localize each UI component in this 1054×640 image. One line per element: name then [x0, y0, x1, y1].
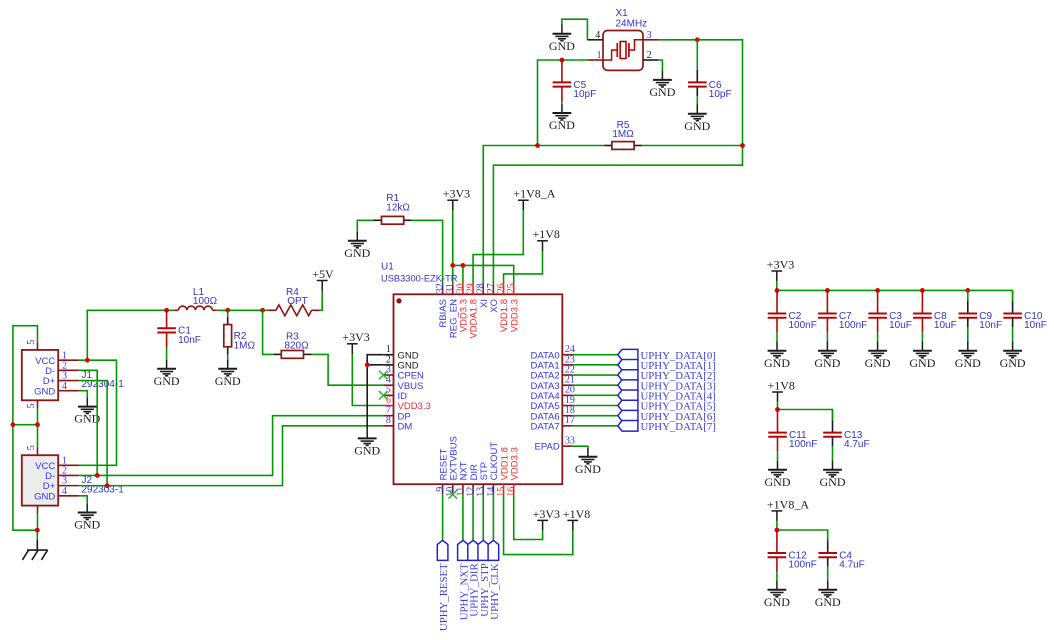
svg-text:100nF: 100nF — [839, 320, 867, 331]
svg-text:+1V8: +1V8 — [533, 227, 560, 241]
junction — [260, 308, 265, 313]
junction — [450, 263, 455, 268]
ground — [154, 360, 180, 388]
svg-text:+1V8: +1V8 — [563, 507, 590, 521]
wire X1 pin2 to GND — [659, 60, 663, 71]
wire EPAD to ground — [572, 446, 587, 447]
net D-: J1 pin2, J2 pin2 to U1 DP — [79, 370, 384, 475]
node UPHY_DATA[4] hierarchical label — [618, 390, 716, 402]
svg-text:GND: GND — [865, 356, 891, 370]
U1 pin 9 RESET — [435, 449, 449, 495]
node UPHY_DATA[5] hierarchical label — [618, 400, 716, 412]
svg-text:USB3300-EZK-TR: USB3300-EZK-TR — [381, 274, 458, 284]
inductor L1 — [174, 306, 217, 310]
power +3V3 — [767, 257, 794, 281]
svg-text:5: 5 — [26, 445, 37, 450]
ground — [815, 581, 841, 609]
resistor R3 — [273, 351, 311, 359]
wire DATA6 to label — [572, 415, 617, 417]
label R4 value OPT — [287, 296, 308, 307]
ground — [820, 461, 846, 489]
label J2 refdes — [82, 475, 93, 486]
net +1V8_A decoupling rail — [777, 521, 828, 539]
svg-text:100nF: 100nF — [789, 439, 817, 450]
pin 5 shield top of J2 — [26, 445, 37, 455]
svg-text:GND: GND — [575, 462, 601, 476]
svg-text:GND: GND — [549, 39, 575, 53]
svg-text:1MΩ: 1MΩ — [234, 340, 256, 351]
pin 3 number — [647, 30, 652, 41]
svg-text:GND: GND — [684, 119, 710, 133]
label L1 value 100&#937; — [193, 296, 218, 307]
net +1V8 decoupling rail — [778, 402, 833, 419]
ground — [814, 342, 840, 370]
svg-text:GND: GND — [820, 475, 846, 489]
svg-text:4: 4 — [595, 30, 600, 41]
U1 pin 2 GND — [383, 354, 418, 371]
junction — [560, 58, 565, 63]
svg-text:24MHz: 24MHz — [616, 18, 648, 29]
svg-text:1: 1 — [597, 50, 602, 61]
U1 pin 18 DATA6 — [530, 405, 574, 422]
node UPHY_DATA[3] hierarchical label — [618, 380, 716, 392]
svg-text:UPHY_CLK: UPHY_CLK — [489, 563, 501, 620]
U1 pin 22 DATA2 — [530, 364, 574, 381]
U1 pin 11 NXT — [455, 461, 469, 496]
svg-text:OPT: OPT — [287, 296, 308, 307]
svg-text:+1V8_A: +1V8_A — [513, 187, 555, 201]
U1 pin 27 XO — [486, 283, 500, 313]
pin 5 shield top of J1 — [26, 340, 37, 350]
node UPHY_STP label — [478, 540, 491, 616]
wire J1 GND pin4 to ground — [79, 391, 88, 398]
label R1 value 12k&#937; — [386, 203, 410, 214]
junction — [164, 308, 169, 313]
U1 pin 12 DIR — [465, 464, 479, 497]
svg-text:GND: GND — [354, 444, 380, 458]
ground — [354, 429, 380, 457]
U1 pin 14 CLKOUT — [486, 442, 500, 497]
ground — [1000, 342, 1026, 370]
junction — [740, 143, 745, 148]
svg-text:GND: GND — [154, 374, 180, 388]
svg-text:1MΩ: 1MΩ — [612, 129, 634, 140]
node UPHY_DATA[7] hierarchical label — [618, 421, 716, 433]
label J1 value 292304-1 — [82, 379, 125, 390]
U1 pin 25 VDD3.3 — [506, 283, 520, 332]
node UPHY_DIR label — [468, 540, 481, 616]
capacitor C5 — [553, 60, 597, 104]
svg-text:16: 16 — [506, 487, 517, 497]
wire U1 to UPHY_DIR — [472, 494, 474, 540]
svg-text:+3V3: +3V3 — [533, 507, 560, 521]
node XTAL1: wire X1 pin1 / C5 / R5 row / XI — [483, 60, 604, 284]
pin 4 number — [595, 30, 600, 41]
net +1V8_A wire to pin 29 — [473, 210, 523, 284]
ground — [215, 360, 241, 388]
capacitor C10 — [1003, 290, 1047, 341]
node UPHY_DATA[1] hierarchical label — [618, 360, 716, 372]
ground — [764, 342, 790, 370]
label R5 value 1M&#937; — [612, 129, 634, 140]
ground — [575, 448, 601, 476]
capacitor C2 — [768, 290, 817, 341]
connector J1 292304-1 (USB) — [22, 350, 79, 400]
junction — [775, 288, 780, 293]
svg-text:10nF: 10nF — [178, 335, 201, 346]
svg-text:GND: GND — [765, 475, 791, 489]
wire U1 to UPHY_CLK — [492, 494, 494, 540]
capacitor C1 — [157, 310, 201, 359]
ground — [74, 397, 100, 425]
resistor R4 (zigzag) — [268, 305, 320, 316]
junction — [920, 288, 925, 293]
power +3V3 — [443, 187, 470, 211]
wires U1 pins 1,2 GND to ground — [367, 355, 383, 430]
U1 pin 19 DATA5 — [530, 395, 574, 412]
svg-text:4: 4 — [62, 381, 67, 392]
junction — [965, 288, 970, 293]
ground — [549, 104, 575, 132]
junction — [825, 288, 830, 293]
U1 pin 17 DATA7 — [530, 415, 574, 432]
svg-text:10nF: 10nF — [979, 320, 1002, 331]
ground — [649, 71, 675, 99]
capacitor C3 — [868, 290, 912, 341]
power +1V8_A — [513, 187, 555, 211]
svg-text:GND: GND — [34, 386, 55, 397]
ground — [74, 503, 100, 531]
svg-text:GND: GND — [815, 595, 841, 609]
power +1V8_A — [767, 497, 809, 521]
ground — [865, 342, 891, 370]
ground — [549, 25, 575, 53]
svg-text:3: 3 — [647, 30, 652, 41]
U1 pin 28 XI — [476, 283, 490, 308]
node UPHY_NXT label — [458, 540, 471, 620]
svg-text:17: 17 — [565, 415, 575, 426]
label X1 value 24MHz — [616, 18, 648, 29]
capacitor C9 — [959, 290, 1003, 341]
pin 5 shield bottom of J2 — [37, 506, 39, 514]
net D+: J1 pin3, J2 pin3 to U1 DM — [79, 381, 384, 486]
wire DATA1 to label — [572, 364, 617, 366]
U1 pin 1 GND — [383, 344, 418, 361]
junction — [105, 483, 110, 488]
wire shield J2 bottom to chassis — [36, 513, 38, 540]
wire DATA4 to label — [572, 394, 617, 396]
label J2 value 292303-1 — [82, 484, 125, 495]
label X1 refdes — [616, 8, 629, 19]
resistor R2 — [224, 310, 232, 359]
wire U1 to UPHY_RESET — [442, 494, 444, 540]
U1 pin 5 ID — [383, 385, 407, 402]
svg-text:GND: GND — [1000, 356, 1026, 370]
no-connect X on pin 10 EXTVBUS — [448, 490, 457, 499]
net shield loop J1 pin5 — [13, 326, 38, 531]
ground — [909, 342, 935, 370]
junction — [95, 473, 100, 478]
wire R3 to U1 VBUS pin 4 — [312, 354, 384, 385]
svg-text:8: 8 — [386, 415, 391, 426]
crystal X1 — [587, 31, 658, 71]
power +3V3 — [342, 330, 369, 354]
svg-text:GND: GND — [909, 356, 935, 370]
junction — [695, 37, 700, 42]
svg-text:GND: GND — [764, 356, 790, 370]
svg-text:4: 4 — [62, 486, 67, 497]
net VCC: J1 pin1 to rail and J2 pin1 — [79, 360, 117, 465]
op-amp U1 USB3300-EZK-TR body — [394, 294, 563, 484]
capacitor C11 — [768, 410, 817, 461]
wire +1V8 to U1 pin 15 — [504, 494, 573, 554]
svg-text:33: 33 — [565, 436, 575, 447]
label L1 refdes — [193, 287, 205, 298]
label R2 refdes — [234, 331, 247, 342]
svg-text:4.7uF: 4.7uF — [839, 560, 865, 571]
svg-text:+1V8: +1V8 — [768, 378, 795, 392]
label J1 refdes — [82, 370, 93, 381]
svg-text:GND: GND — [344, 246, 370, 260]
node UPHY_CLK label — [488, 540, 501, 619]
svg-text:GND: GND — [549, 118, 575, 132]
node UPHY_DATA[2] hierarchical label — [618, 370, 716, 382]
svg-text:GND: GND — [764, 595, 790, 609]
label R1 refdes — [386, 193, 399, 204]
svg-text:25: 25 — [506, 283, 517, 293]
wire VBUS branch to R3 — [263, 310, 274, 354]
junction — [875, 288, 880, 293]
ground — [955, 342, 981, 370]
svg-text:12kΩ: 12kΩ — [386, 203, 410, 214]
junction — [365, 362, 370, 367]
resistor R1 — [374, 216, 412, 224]
svg-text:+3V3: +3V3 — [767, 257, 794, 271]
power +1V8 — [533, 227, 560, 251]
wire J2 GND pin4 to ground — [79, 496, 88, 504]
svg-text:GND: GND — [34, 491, 55, 502]
junction — [225, 308, 230, 313]
U1 pin 15 VDD1.8 — [496, 447, 510, 497]
svg-text:10pF: 10pF — [573, 89, 596, 100]
svg-text:+1V8_A: +1V8_A — [767, 497, 809, 511]
capacitor C8 — [913, 290, 957, 341]
U1 pin 33 EPAD — [535, 436, 575, 453]
svg-text:VDD3.3: VDD3.3 — [510, 447, 521, 480]
wire DATA3 to label — [572, 384, 617, 386]
wire R1 right to U1 RBIAS pin 32 — [412, 220, 443, 284]
no-connect X on pin 3 CPEN — [379, 371, 388, 380]
U1 pin 7 DP — [383, 405, 410, 422]
svg-text:10nF: 10nF — [1024, 320, 1047, 331]
U1 pin 24 DATA0 — [530, 344, 574, 361]
U1 pin 10 EXTVBUS — [445, 436, 459, 497]
wire U1 to UPHY_STP — [482, 494, 484, 540]
U1 pin 16 VDD3.3 — [506, 447, 520, 497]
ground — [344, 232, 370, 260]
junction — [461, 263, 466, 268]
svg-text:GND: GND — [955, 356, 981, 370]
svg-text:2: 2 — [647, 50, 652, 61]
power +1V8 — [563, 507, 590, 531]
svg-text:DATA7: DATA7 — [530, 421, 559, 432]
wire shield J1 bottom to J2 top — [13, 408, 38, 447]
node UPHY_DATA[6] hierarchical label — [618, 410, 716, 422]
svg-text:820Ω: 820Ω — [284, 341, 309, 352]
power +5V — [312, 267, 334, 291]
power +3V3 — [533, 507, 560, 531]
connector J2 292303-1 (USB) — [22, 455, 79, 505]
capacitor C4 — [818, 530, 864, 581]
wire R1 left to GND — [357, 220, 373, 231]
svg-text:GND: GND — [215, 374, 241, 388]
svg-text:100Ω: 100Ω — [193, 296, 218, 307]
wire DATA7 to label — [572, 425, 617, 427]
node VBUS rail from J1 VCC — [87, 310, 268, 360]
node XTAL2: wire X1 pin3 / C6 / R5 right / XO — [493, 40, 742, 284]
ground — [765, 461, 791, 489]
svg-text:+5V: +5V — [312, 267, 334, 281]
svg-text:UPHY_DATA[7]: UPHY_DATA[7] — [641, 421, 716, 433]
label R2 value 1M&#937; — [234, 340, 256, 351]
junction — [775, 407, 780, 412]
node UPHY_DATA[0] hierarchical label — [618, 349, 716, 361]
svg-text:10pF: 10pF — [709, 89, 732, 100]
pin 1 number — [597, 50, 602, 61]
U1 pin 3 CPEN — [383, 364, 424, 381]
junction — [35, 528, 40, 533]
U1 pin 8 DM — [383, 415, 412, 432]
svg-text:10uF: 10uF — [934, 320, 957, 331]
wire DATA5 to label — [572, 405, 617, 407]
wire +3V3 to U1 pin 16 — [514, 494, 543, 539]
svg-text:5: 5 — [26, 340, 37, 345]
junction — [35, 422, 40, 427]
label R4 refdes — [286, 287, 299, 298]
label R3 value 820&#937; — [284, 341, 309, 352]
no-connect X on pin 5 ID — [379, 391, 388, 400]
wire +3V3 to U1 VDD3.3 pin 6 — [352, 354, 383, 406]
junction — [11, 422, 16, 427]
pin 5 shield bottom of J1 — [26, 400, 37, 408]
power +1V8 — [768, 378, 795, 402]
capacitor C7 — [818, 290, 867, 341]
resistor R5 — [604, 142, 642, 150]
wire X1 pin4 to GND — [562, 19, 588, 40]
U1 pin 29 VDDA1.8 — [465, 283, 479, 338]
node UPHY_RESET label — [437, 540, 450, 631]
wire DATA2 to label — [572, 374, 617, 376]
svg-text:+3V3: +3V3 — [342, 330, 369, 344]
U1 pin 4 VBUS — [383, 375, 423, 392]
U1 pin 26 VDD1.8 — [496, 283, 510, 332]
wire R4 right to +5V — [320, 291, 323, 311]
svg-text:4.7uF: 4.7uF — [844, 439, 870, 450]
svg-text:100nF: 100nF — [789, 320, 817, 331]
net +3V3 wire to pins 31,30,25 — [453, 210, 514, 284]
pin 2 number — [647, 50, 652, 61]
label R5 refdes — [617, 120, 630, 131]
junction — [535, 143, 540, 148]
U1 pin 23 DATA1 — [530, 354, 574, 371]
svg-text:GND: GND — [74, 518, 100, 532]
U1 pin 20 DATA4 — [530, 385, 574, 402]
U1 pin 6 VDD3.3 — [383, 395, 430, 412]
junction — [775, 528, 780, 533]
net +1V8 wire to pin 26 — [504, 251, 543, 284]
U1 pin 13 STP — [476, 462, 490, 497]
U1 pin 31 REG_EN — [445, 283, 459, 338]
svg-text:EPAD: EPAD — [535, 442, 560, 453]
svg-text:100nF: 100nF — [788, 560, 816, 571]
U1 pin 21 DATA3 — [530, 375, 574, 392]
wire DATA0 to label — [572, 354, 617, 356]
U1 pin 32 RBIAS — [435, 283, 449, 327]
capacitor C12 — [768, 530, 817, 581]
chassis earth ground — [22, 540, 47, 560]
svg-text:5: 5 — [26, 404, 37, 409]
U1 pin 30 VDD3.3 — [455, 283, 469, 332]
svg-text:U1: U1 — [381, 262, 394, 273]
svg-text:+3V3: +3V3 — [443, 187, 470, 201]
svg-text:GND: GND — [649, 85, 675, 99]
capacitor C6 — [688, 40, 732, 105]
svg-text:GND: GND — [814, 356, 840, 370]
label R3 refdes — [286, 331, 299, 342]
capacitor C13 — [823, 410, 869, 461]
svg-text:VDD3.3: VDD3.3 — [509, 299, 520, 332]
svg-text:DM: DM — [398, 421, 413, 432]
ground — [764, 581, 790, 609]
svg-text:10uF: 10uF — [889, 320, 912, 331]
junction — [85, 358, 90, 363]
wire U1 to UPHY_NXT — [462, 494, 464, 540]
label U1 value USB3300-EZK-TR — [381, 274, 458, 284]
ground — [684, 105, 710, 133]
net +3V3 decoupling rail — [777, 281, 1013, 300]
label U1 refdes — [381, 262, 394, 273]
svg-text:UPHY_RESET: UPHY_RESET — [438, 563, 450, 631]
